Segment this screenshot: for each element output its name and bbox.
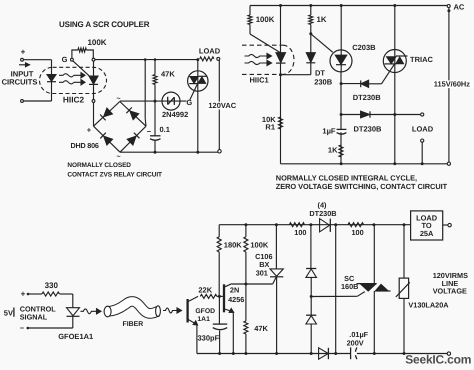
svg-text:ZERO VOLTAGE SWITCHING, CONTAC: ZERO VOLTAGE SWITCHING, CONTACT CIRCUIT [276,182,448,191]
svg-text:100K: 100K [250,241,269,250]
svg-text:(4): (4) [318,200,327,209]
svg-text:4256: 4256 [228,295,244,304]
svg-text:230B: 230B [314,78,333,87]
svg-text:1µF: 1µF [322,127,335,136]
svg-text:−: − [20,323,25,332]
svg-text:120VAC: 120VAC [208,101,236,110]
svg-text:VOLTAGE: VOLTAGE [433,287,467,296]
svg-text:2N: 2N [230,285,239,294]
svg-text:+: + [21,48,26,57]
svg-text:AC: AC [454,3,465,12]
svg-text:R1: R1 [265,122,275,131]
svg-text:HIIC1: HIIC1 [250,75,269,84]
svg-text:DT230B: DT230B [354,125,383,134]
svg-text:C203B: C203B [352,43,376,52]
svg-text:0.1: 0.1 [160,125,170,134]
svg-text:DHD 806: DHD 806 [71,141,99,150]
svg-text:25A: 25A [420,229,434,238]
svg-text:301: 301 [256,268,268,277]
svg-text:100: 100 [294,228,306,237]
svg-text:CIRCUITS: CIRCUITS [2,77,38,86]
svg-text:47K: 47K [161,70,175,79]
svg-text:115V/60Hz: 115V/60Hz [434,79,470,88]
svg-text:22K: 22K [198,286,212,295]
svg-text:1K: 1K [317,15,327,24]
svg-text:330pF: 330pF [198,334,220,343]
svg-text:330: 330 [45,281,59,290]
svg-text:V130LA20A: V130LA20A [408,301,449,310]
svg-text:100K: 100K [87,38,106,47]
svg-text:G: G [62,55,68,64]
svg-text:NORMALLY CLOSED: NORMALLY CLOSED [67,162,131,169]
svg-text:+: + [87,126,92,135]
svg-text:USING A SCR COUPLER: USING A SCR COUPLER [59,20,150,29]
svg-text:5V: 5V [4,308,13,317]
svg-text:2N4992: 2N4992 [162,110,188,119]
svg-text:LOAD: LOAD [412,124,434,133]
svg-text:FIBER: FIBER [123,321,144,328]
svg-text:200V: 200V [347,339,364,348]
svg-text:1A1: 1A1 [197,316,210,323]
svg-text:HIIC2: HIIC2 [63,95,85,105]
svg-text:.01µF: .01µF [349,330,368,339]
svg-text:160B: 160B [341,282,358,291]
svg-text:SIGNAL: SIGNAL [20,312,48,321]
svg-text:100K: 100K [256,15,275,24]
svg-text:47K: 47K [254,324,268,333]
svg-text:TRIAC: TRIAC [410,55,433,64]
svg-text:+: + [21,290,26,299]
svg-text:−: − [147,127,152,136]
svg-text:GFOD: GFOD [195,308,215,315]
svg-text:DT230B: DT230B [309,209,336,218]
svg-text:LOAD: LOAD [199,46,221,55]
svg-text:SeekIC.com: SeekIC.com [405,353,471,367]
svg-text:GFOE1A1: GFOE1A1 [58,332,93,341]
svg-text:CONTACT ZVS RELAY CIRCUIT: CONTACT ZVS RELAY CIRCUIT [67,172,162,179]
svg-text:G: G [186,98,192,107]
svg-text:DT: DT [315,69,325,78]
svg-text:1K: 1K [328,146,338,155]
svg-text:DT230B: DT230B [353,93,382,102]
svg-text:180K: 180K [224,241,243,250]
svg-text:~: ~ [116,154,120,161]
svg-text:100: 100 [352,228,364,237]
